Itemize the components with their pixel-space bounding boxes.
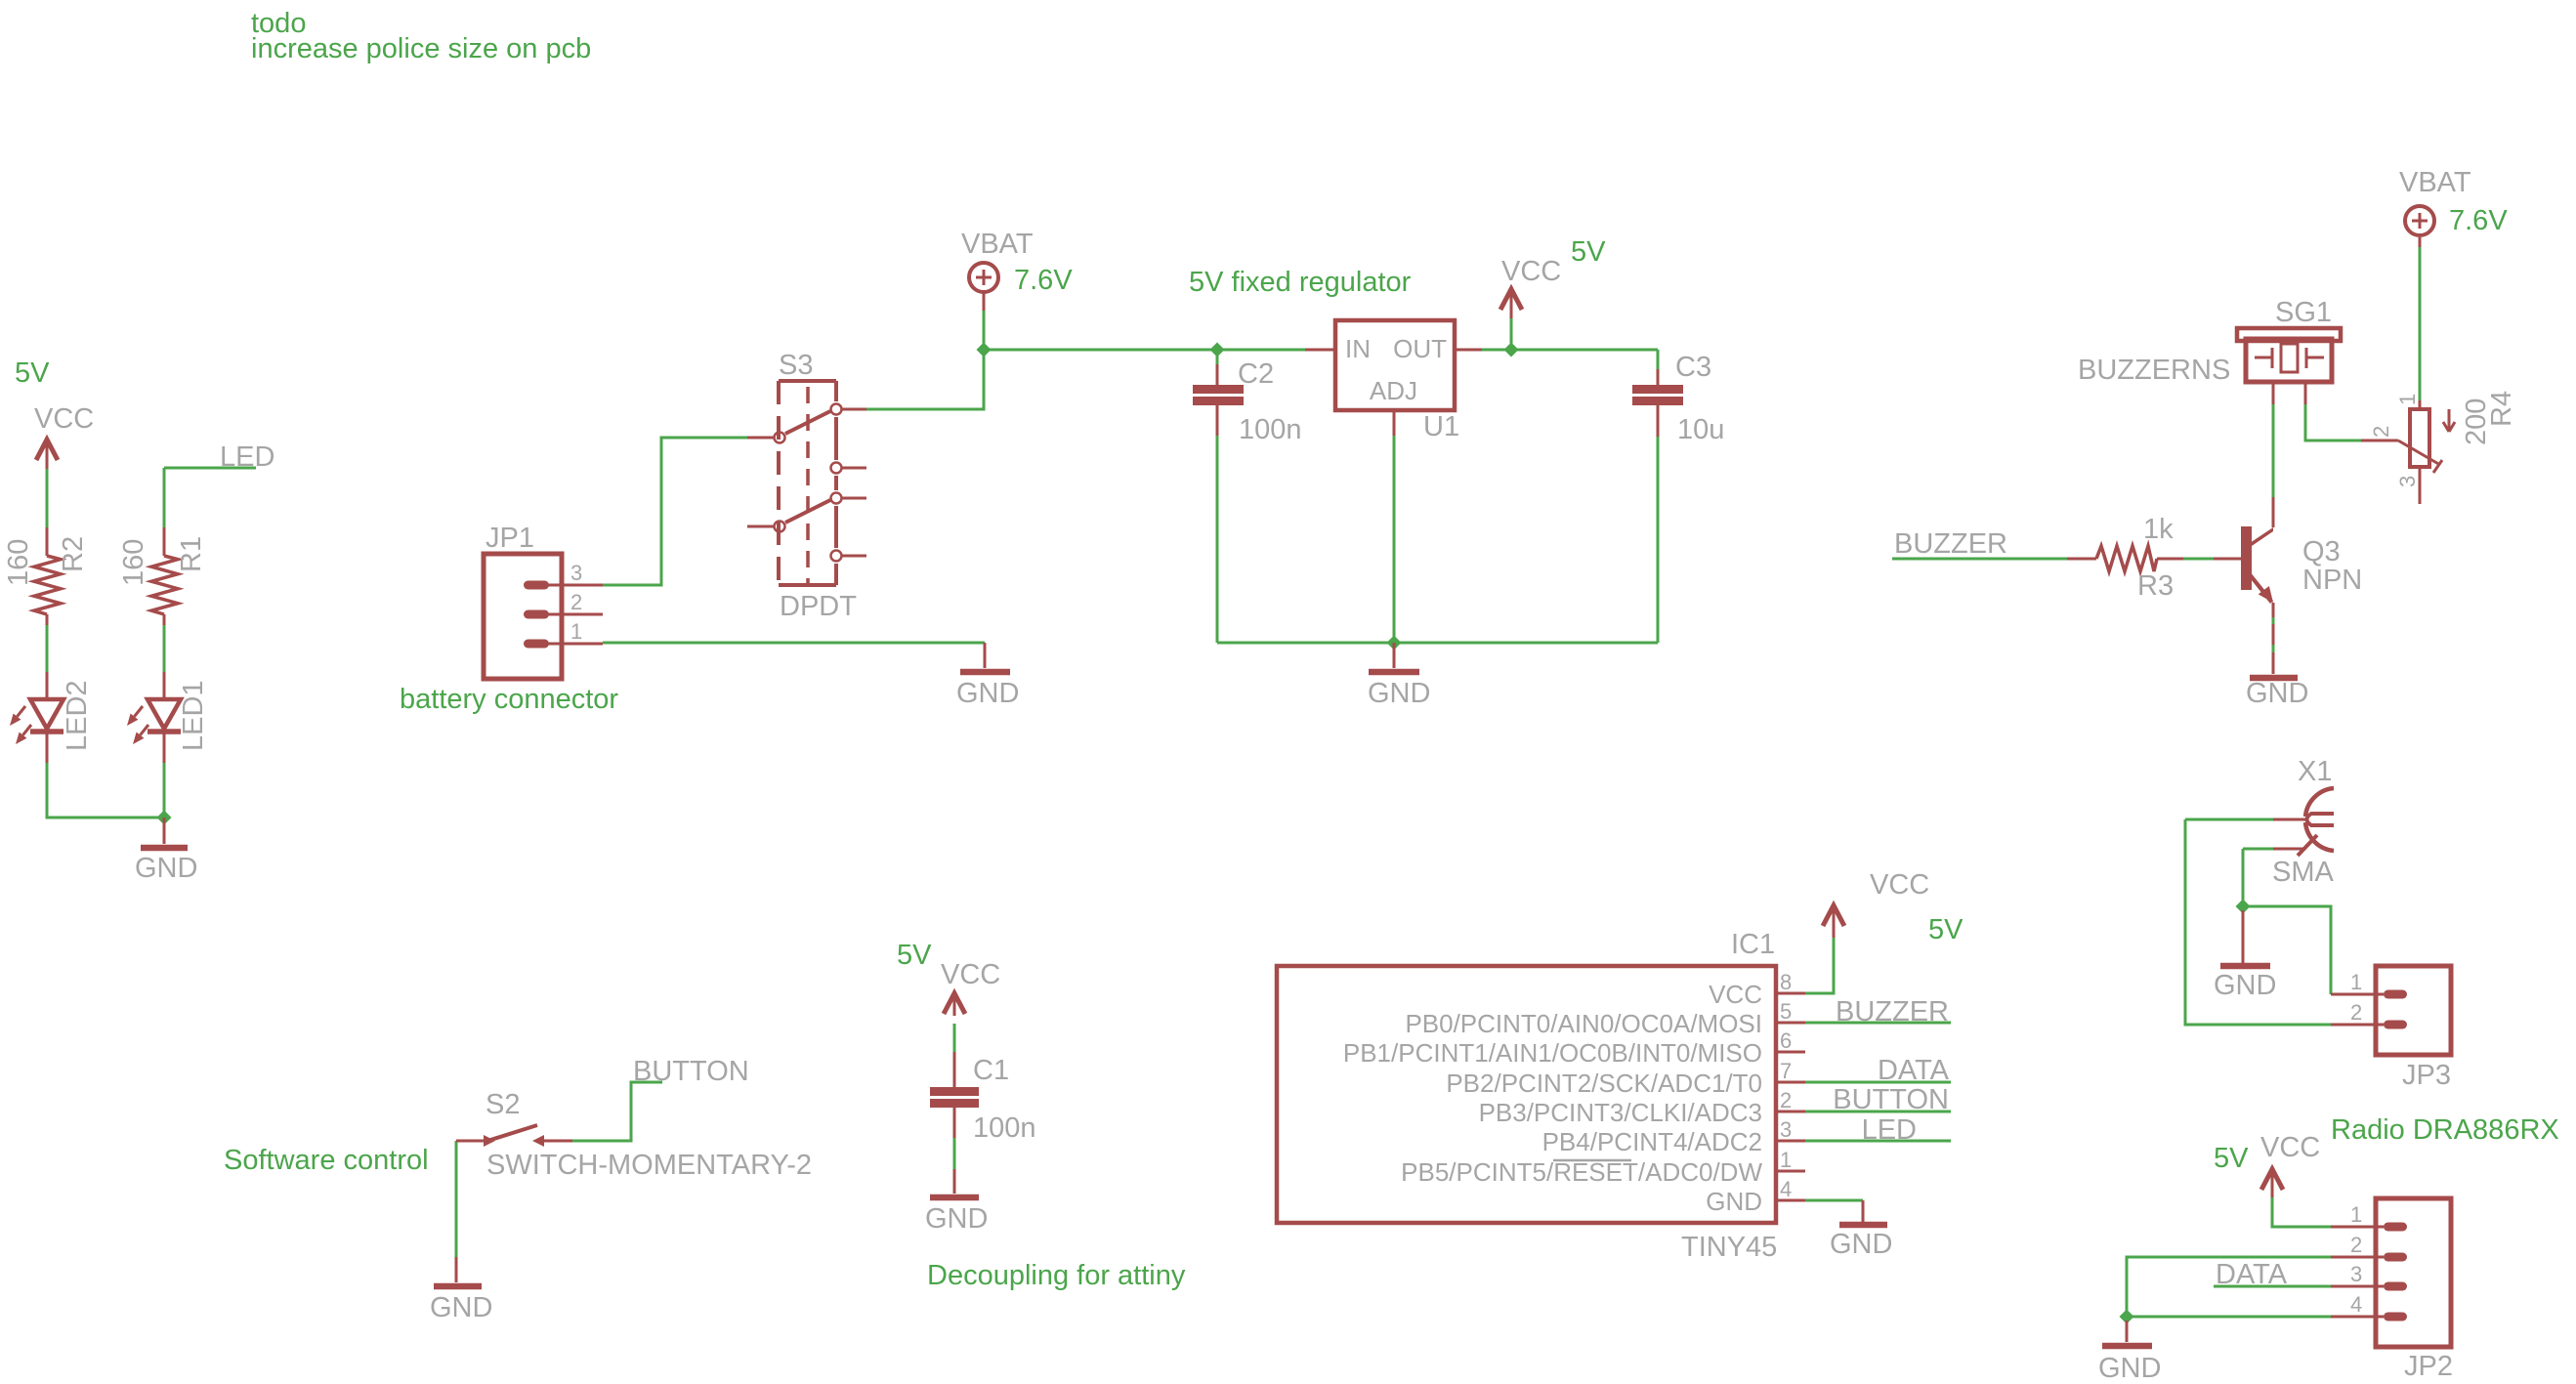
svg-text:IC1: IC1 bbox=[1731, 929, 1775, 960]
svg-text:GND: GND bbox=[1368, 678, 1430, 709]
svg-text:5V: 5V bbox=[1928, 914, 1964, 945]
svg-text:VCC: VCC bbox=[941, 959, 1000, 990]
svg-text:VCC: VCC bbox=[1501, 256, 1561, 287]
svg-text:LED2: LED2 bbox=[62, 680, 93, 751]
svg-text:VBAT: VBAT bbox=[2399, 167, 2471, 198]
svg-text:OUT: OUT bbox=[1393, 334, 1447, 363]
svg-text:GND: GND bbox=[2214, 970, 2276, 1001]
svg-text:1: 1 bbox=[1780, 1148, 1792, 1172]
svg-text:GND: GND bbox=[135, 853, 197, 884]
svg-text:R1: R1 bbox=[176, 536, 207, 572]
svg-text:DPDT: DPDT bbox=[780, 591, 857, 622]
svg-text:PB2/PCINT2/SCK/ADC1/T0: PB2/PCINT2/SCK/ADC1/T0 bbox=[1446, 1069, 1762, 1098]
svg-text:R2: R2 bbox=[58, 536, 89, 572]
svg-text:X1: X1 bbox=[2298, 756, 2332, 787]
svg-text:7: 7 bbox=[1780, 1059, 1792, 1083]
svg-text:4: 4 bbox=[2350, 1292, 2362, 1317]
svg-text:VCC: VCC bbox=[1870, 869, 1929, 901]
svg-text:1: 1 bbox=[2350, 970, 2362, 994]
svg-text:JP2: JP2 bbox=[2404, 1351, 2453, 1382]
svg-text:SG1: SG1 bbox=[2275, 297, 2332, 328]
svg-text:increase police size on pcb: increase police size on pcb bbox=[251, 33, 591, 64]
svg-text:LED: LED bbox=[1862, 1114, 1917, 1146]
svg-text:GND: GND bbox=[1830, 1229, 1892, 1260]
svg-text:1: 1 bbox=[2395, 394, 2420, 405]
svg-text:3: 3 bbox=[2395, 476, 2420, 487]
svg-text:S2: S2 bbox=[486, 1089, 520, 1120]
svg-text:5V: 5V bbox=[15, 357, 50, 389]
svg-text:C3: C3 bbox=[1675, 352, 1711, 383]
svg-text:ADJ: ADJ bbox=[1370, 376, 1417, 405]
svg-text:1k: 1k bbox=[2143, 514, 2174, 545]
svg-text:7.6V: 7.6V bbox=[1014, 265, 1073, 296]
svg-text:LED: LED bbox=[220, 441, 274, 473]
svg-text:5V: 5V bbox=[2214, 1143, 2249, 1174]
svg-text:BUZZER: BUZZER bbox=[1894, 528, 2007, 560]
svg-text:100n: 100n bbox=[1239, 414, 1302, 445]
svg-text:IN: IN bbox=[1345, 334, 1371, 363]
svg-text:C2: C2 bbox=[1238, 358, 1274, 390]
svg-text:JP1: JP1 bbox=[486, 523, 534, 554]
svg-text:Decoupling for attiny: Decoupling for attiny bbox=[927, 1260, 1186, 1291]
svg-text:VCC: VCC bbox=[34, 403, 94, 435]
svg-text:SWITCH-MOMENTARY-2: SWITCH-MOMENTARY-2 bbox=[486, 1150, 812, 1181]
svg-text:160: 160 bbox=[3, 539, 34, 586]
svg-text:PB5/PCINT5/RESET/ADC0/DW: PB5/PCINT5/RESET/ADC0/DW bbox=[1401, 1157, 1762, 1187]
svg-text:BUZZER: BUZZER bbox=[1836, 996, 1949, 1028]
svg-text:10u: 10u bbox=[1677, 414, 1724, 445]
svg-text:DATA: DATA bbox=[1878, 1055, 1950, 1086]
svg-text:2: 2 bbox=[2350, 1000, 2362, 1025]
svg-text:8: 8 bbox=[1780, 970, 1792, 994]
svg-text:C1: C1 bbox=[973, 1055, 1009, 1086]
svg-text:100n: 100n bbox=[973, 1112, 1036, 1144]
svg-text:VCC: VCC bbox=[2260, 1132, 2320, 1163]
svg-text:6: 6 bbox=[1780, 1028, 1792, 1053]
svg-text:VCC: VCC bbox=[1709, 980, 1762, 1009]
svg-text:Q3: Q3 bbox=[2302, 536, 2341, 567]
svg-text:GND: GND bbox=[2246, 678, 2308, 709]
svg-text:BUTTON: BUTTON bbox=[633, 1056, 749, 1087]
svg-text:3: 3 bbox=[570, 561, 582, 585]
svg-text:U1: U1 bbox=[1423, 411, 1459, 442]
svg-text:JP3: JP3 bbox=[2402, 1060, 2451, 1091]
svg-text:2: 2 bbox=[2350, 1233, 2362, 1257]
svg-text:5V: 5V bbox=[1571, 236, 1606, 268]
svg-text:Software control: Software control bbox=[224, 1145, 429, 1176]
svg-text:2: 2 bbox=[1780, 1088, 1792, 1112]
svg-text:BUZZERNS: BUZZERNS bbox=[2078, 355, 2230, 386]
svg-text:PB0/PCINT0/AIN0/OC0A/MOSI: PB0/PCINT0/AIN0/OC0A/MOSI bbox=[1405, 1009, 1762, 1038]
svg-text:VBAT: VBAT bbox=[961, 229, 1034, 260]
svg-text:PB1/PCINT1/AIN1/OC0B/INT0/MISO: PB1/PCINT1/AIN1/OC0B/INT0/MISO bbox=[1343, 1038, 1762, 1068]
svg-text:3: 3 bbox=[2350, 1262, 2362, 1286]
svg-text:5: 5 bbox=[1780, 999, 1792, 1024]
svg-text:1: 1 bbox=[2350, 1202, 2362, 1227]
svg-text:2: 2 bbox=[2369, 426, 2393, 438]
svg-text:TINY45: TINY45 bbox=[1681, 1232, 1777, 1263]
svg-text:2: 2 bbox=[570, 590, 582, 614]
svg-text:GND: GND bbox=[2098, 1353, 2161, 1384]
svg-text:S3: S3 bbox=[779, 350, 813, 381]
svg-text:PB4/PCINT4/ADC2: PB4/PCINT4/ADC2 bbox=[1542, 1127, 1762, 1156]
svg-text:GND: GND bbox=[1706, 1187, 1762, 1216]
svg-text:DATA: DATA bbox=[2216, 1259, 2288, 1290]
svg-text:R3: R3 bbox=[2137, 570, 2174, 602]
svg-text:NPN: NPN bbox=[2302, 565, 2362, 596]
svg-text:7.6V: 7.6V bbox=[2449, 205, 2508, 236]
svg-text:PB3/PCINT3/CLKI/ADC3: PB3/PCINT3/CLKI/ADC3 bbox=[1479, 1098, 1762, 1127]
svg-text:battery connector: battery connector bbox=[400, 684, 618, 715]
svg-text:3: 3 bbox=[1780, 1117, 1792, 1142]
svg-text:5V fixed regulator: 5V fixed regulator bbox=[1189, 267, 1412, 298]
svg-text:1: 1 bbox=[570, 619, 582, 644]
svg-text:R4: R4 bbox=[2486, 391, 2517, 427]
svg-text:160: 160 bbox=[118, 539, 149, 586]
svg-text:SMA: SMA bbox=[2272, 857, 2335, 888]
svg-text:GND: GND bbox=[430, 1292, 492, 1323]
svg-text:GND: GND bbox=[956, 678, 1019, 709]
svg-text:4: 4 bbox=[1780, 1177, 1792, 1201]
svg-text:Radio DRA886RX: Radio DRA886RX bbox=[2331, 1114, 2559, 1146]
svg-text:GND: GND bbox=[925, 1203, 988, 1235]
svg-text:BUTTON: BUTTON bbox=[1833, 1084, 1949, 1115]
svg-text:LED1: LED1 bbox=[178, 680, 209, 751]
svg-text:5V: 5V bbox=[897, 940, 932, 971]
